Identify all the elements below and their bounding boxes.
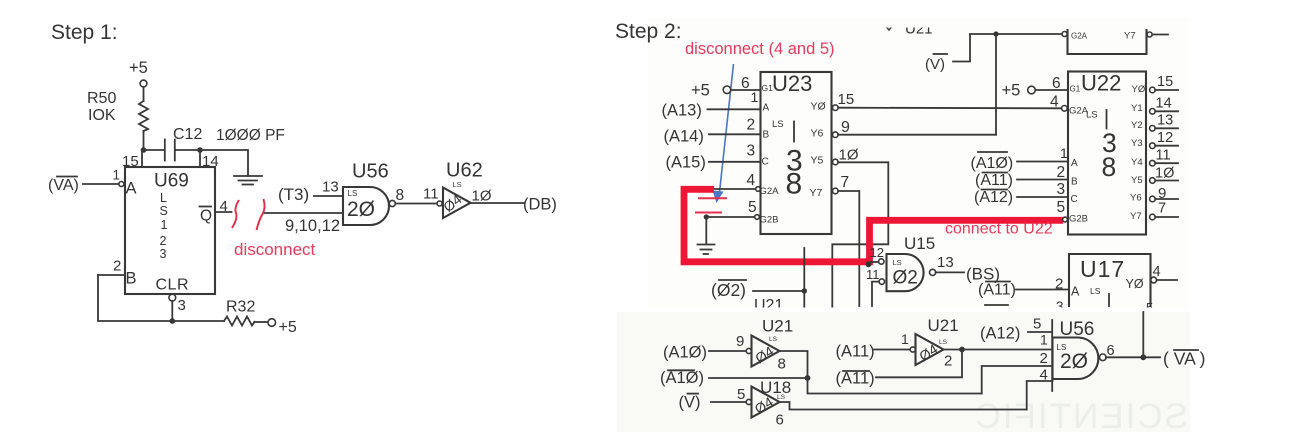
svg-text:(A11): (A11) xyxy=(978,282,1016,299)
red cut mark at pin 4 xyxy=(698,197,727,199)
svg-text:LS: LS xyxy=(772,119,784,130)
red cut mark at pin 5 xyxy=(695,212,722,214)
inverter U21a input bubble xyxy=(746,348,751,353)
U23 big 138 label xyxy=(793,122,795,142)
NOR gate U15 xyxy=(887,254,924,291)
pin 15 stub xyxy=(141,150,143,167)
wire node up to strip edge xyxy=(1142,312,1144,357)
svg-text:14: 14 xyxy=(1156,96,1172,112)
svg-text:2: 2 xyxy=(1055,276,1063,293)
ground xyxy=(234,175,262,177)
wire (A15) to pin 3 xyxy=(709,161,760,163)
svg-text:C12: C12 xyxy=(173,126,202,143)
svg-text:(A1Ø): (A1Ø) xyxy=(971,155,1014,172)
svg-text:Ø2: Ø2 xyxy=(893,268,918,289)
svg-text:Y3: Y3 xyxy=(1131,138,1143,149)
svg-text:3: 3 xyxy=(178,297,186,314)
svg-text:Y5: Y5 xyxy=(811,155,824,167)
wire (A11) to U22 pin 2 xyxy=(1017,179,1068,181)
svg-text:G1: G1 xyxy=(762,83,774,93)
svg-text:1: 1 xyxy=(751,89,759,105)
svg-text:7: 7 xyxy=(1158,201,1166,217)
wire Y7 routed down xyxy=(838,191,859,306)
NAND gate U56 xyxy=(343,187,389,225)
node junction on output xyxy=(1140,354,1146,360)
svg-text:5: 5 xyxy=(1057,199,1066,216)
svg-text:8: 8 xyxy=(778,356,786,373)
inverter U18 input bubble xyxy=(746,399,751,404)
wire pin4 stub (cut) xyxy=(215,211,232,213)
svg-text:15: 15 xyxy=(838,91,855,108)
svg-text:U62: U62 xyxy=(446,160,483,182)
svg-text:(A1Ø): (A1Ø) xyxy=(660,369,704,387)
svg-text:U56: U56 xyxy=(1060,319,1095,340)
svg-text:A: A xyxy=(1071,158,1078,169)
svg-text:13: 13 xyxy=(322,179,339,196)
svg-text:5: 5 xyxy=(748,199,757,216)
wire pin3 down xyxy=(171,301,173,318)
blue pointer arrow xyxy=(720,64,734,192)
svg-text:+5: +5 xyxy=(691,82,710,100)
svg-text:Y4: Y4 xyxy=(1131,157,1143,168)
inverter U18 xyxy=(752,387,780,418)
wire U15 out to (BS) xyxy=(936,271,964,273)
+5 terminal at R32 xyxy=(268,319,276,327)
cut-off chip fragment (top right) xyxy=(1068,29,1147,54)
svg-text:3: 3 xyxy=(1057,181,1066,198)
wire U21b out to U56 pin 1 xyxy=(944,349,1053,351)
node junction below pin 3 xyxy=(170,318,176,324)
svg-text:B: B xyxy=(763,130,770,141)
U22 pin 5 G2B bubble (red wire destination) xyxy=(1063,217,1068,222)
svg-text:CLR: CLR xyxy=(156,277,190,294)
svg-text:12: 12 xyxy=(870,245,884,260)
svg-text:(V): (V) xyxy=(679,394,701,412)
thick red jumper wire (connect to U22) xyxy=(684,189,1063,261)
svg-text:(A12): (A12) xyxy=(974,189,1013,206)
wire (A10 bar) to node xyxy=(709,377,808,379)
svg-text:13: 13 xyxy=(937,254,954,271)
svg-text:LS: LS xyxy=(1086,110,1098,121)
wire node to R32 xyxy=(172,320,224,322)
wire +5 to R50 xyxy=(143,87,145,101)
svg-text:U56: U56 xyxy=(352,161,389,183)
svg-text:G2B: G2B xyxy=(760,215,779,226)
wire stub to U15 pin 12 xyxy=(869,261,879,263)
svg-text:G2A: G2A xyxy=(760,186,780,197)
svg-text:3: 3 xyxy=(747,143,756,160)
pin 3 bubble on CLR xyxy=(169,294,176,301)
wire (02) to riser xyxy=(753,290,804,292)
svg-text:Y7: Y7 xyxy=(810,187,823,199)
wire (T3) to pin 13 xyxy=(314,195,343,197)
wire (A11 bar) to node xyxy=(876,350,962,378)
cut overline fragment at strip edge xyxy=(985,304,1008,306)
wire U15 pin 11 riser xyxy=(872,282,879,306)
wire (A11) to U17 pin 2 xyxy=(1016,289,1069,291)
svg-text:Step 1:: Step 1: xyxy=(51,21,118,44)
wire (A13) to pin 1 xyxy=(708,108,761,110)
U22 pin 4 G2A bubble xyxy=(1062,106,1068,112)
wire U56 out to (VA bar) xyxy=(1106,356,1160,358)
svg-text:12: 12 xyxy=(1157,130,1173,146)
svg-text:YØ: YØ xyxy=(811,101,826,113)
decoder U17 box (cut) xyxy=(1069,254,1151,307)
svg-text:(A14): (A14) xyxy=(664,128,704,146)
svg-text:G2B: G2B xyxy=(1069,214,1088,225)
svg-text:Y5: Y5 xyxy=(1131,175,1143,186)
svg-text:LS: LS xyxy=(939,339,948,346)
svg-text:YØ: YØ xyxy=(1126,277,1144,291)
svg-text:+5: +5 xyxy=(129,59,148,77)
svg-text:2: 2 xyxy=(944,353,952,370)
wire top rail down to U23 pin9 wire xyxy=(995,34,997,135)
inverter U21b input bubble xyxy=(910,347,915,352)
wire Y5 routed down xyxy=(832,162,888,307)
wire (VA) to pin 1 xyxy=(83,183,119,185)
svg-text:2: 2 xyxy=(160,234,167,248)
svg-text:6: 6 xyxy=(741,75,750,92)
one-shot U69 box xyxy=(125,167,215,294)
svg-text:S: S xyxy=(160,204,168,218)
wire (A14) to pin 2 xyxy=(709,133,760,135)
svg-text:LS: LS xyxy=(777,394,786,401)
svg-text:LS: LS xyxy=(348,189,358,198)
wire node down and right to U56 pin 2 riser xyxy=(808,378,982,394)
decoder U23 box xyxy=(761,72,832,234)
svg-text:(VA): (VA) xyxy=(48,177,79,194)
wire node to ground xyxy=(200,150,248,175)
wire (V) up to top rail xyxy=(953,34,1062,62)
svg-text:IOK: IOK xyxy=(88,107,116,124)
upper scan strip background xyxy=(648,18,1190,308)
svg-text:connect to U22: connect to U22 xyxy=(945,221,1053,238)
svg-text:2Ø: 2Ø xyxy=(347,198,375,221)
svg-text:Y1: Y1 xyxy=(1131,103,1143,114)
svg-text:(Ø2): (Ø2) xyxy=(711,280,746,300)
svg-text:13: 13 xyxy=(1157,113,1173,129)
wire U17 Y0 out xyxy=(1157,279,1178,281)
wire Y0 to U22 pin 4 xyxy=(838,107,1061,110)
svg-text:U23: U23 xyxy=(772,71,812,96)
svg-text:1: 1 xyxy=(161,218,168,232)
svg-text:LS: LS xyxy=(893,258,902,267)
svg-text:disconnect (4 and 5): disconnect (4 and 5) xyxy=(685,40,835,58)
svg-text:(A15): (A15) xyxy=(666,154,706,172)
svg-text:(A11): (A11) xyxy=(836,343,875,361)
svg-text:9: 9 xyxy=(841,119,850,136)
wire junction to ground xyxy=(705,217,707,244)
svg-text:9: 9 xyxy=(736,333,744,350)
node junction left of C12 xyxy=(141,147,147,153)
svg-text:9: 9 xyxy=(1158,185,1166,202)
inverter U62 xyxy=(443,188,471,219)
svg-text:(A1Ø): (A1Ø) xyxy=(663,344,707,362)
inverter U21a xyxy=(752,336,780,367)
pin 4 G2A stub (disconnected) xyxy=(713,188,756,190)
node junction at red corner / U15 pin12 xyxy=(866,261,872,267)
svg-text:(T3): (T3) xyxy=(278,185,309,204)
wire (A12) to U22 pin 3 xyxy=(1017,196,1068,198)
svg-text:(A11): (A11) xyxy=(836,370,875,388)
svg-text:U21: U21 xyxy=(762,317,793,336)
svg-text:8: 8 xyxy=(396,187,405,204)
svg-text:B: B xyxy=(1071,177,1078,188)
resistor R32 xyxy=(224,317,255,326)
svg-text:2: 2 xyxy=(113,258,121,275)
wire (A11) to U21b input xyxy=(874,349,910,351)
wire (A10) to U21 input xyxy=(709,350,746,352)
ground below U23 xyxy=(698,244,715,246)
svg-text:U17: U17 xyxy=(1080,256,1125,282)
svg-text:Y6: Y6 xyxy=(811,128,824,140)
svg-text:1Ø: 1Ø xyxy=(472,188,492,205)
svg-text:4: 4 xyxy=(1153,264,1161,280)
wire (A12) to U56 pin 5 xyxy=(1028,331,1052,333)
svg-text:( VA ): ( VA ) xyxy=(1163,349,1205,369)
red break mark 2 xyxy=(257,199,265,230)
svg-text:LS: LS xyxy=(1090,286,1101,296)
svg-text:4: 4 xyxy=(747,172,756,189)
svg-text:L: L xyxy=(160,191,167,205)
svg-text:R32: R32 xyxy=(226,299,255,316)
svg-text:1ØØØ PF: 1ØØØ PF xyxy=(216,127,285,144)
svg-text:1: 1 xyxy=(1060,145,1068,161)
wire B loop to pin3 node xyxy=(98,275,169,321)
node junction on pin5 stub xyxy=(704,214,709,219)
svg-text:15: 15 xyxy=(1157,74,1173,90)
svg-text:5: 5 xyxy=(737,386,745,403)
svg-text:7: 7 xyxy=(841,174,850,191)
inverter U62 input bubble xyxy=(437,201,442,206)
svg-text:SCIENTIFIC: SCIENTIFIC xyxy=(974,397,1188,436)
NAND gate U56 body xyxy=(1053,338,1099,380)
svg-text:(A13): (A13) xyxy=(662,102,702,120)
wire node to C12 xyxy=(144,149,164,151)
wire +5 to U22 pin 6 xyxy=(1035,89,1068,91)
wire R32 to +5 terminal xyxy=(255,321,269,323)
svg-text:1Ø: 1Ø xyxy=(839,147,859,164)
svg-text:LS: LS xyxy=(453,180,462,189)
wire cut-right to U56 input xyxy=(265,212,344,214)
svg-text:2: 2 xyxy=(1057,164,1066,181)
svg-text:11: 11 xyxy=(423,186,439,203)
svg-text:11: 11 xyxy=(866,267,880,282)
svg-text:4: 4 xyxy=(1050,94,1059,111)
svg-text:5: 5 xyxy=(1033,316,1041,333)
pin 1 bubble at A xyxy=(119,182,124,187)
svg-text:8: 8 xyxy=(1102,152,1117,182)
svg-text:Q: Q xyxy=(200,208,212,225)
node junction (A11 bar net) xyxy=(959,347,965,353)
svg-text:(A11): (A11) xyxy=(975,172,1013,189)
svg-text:11: 11 xyxy=(1156,148,1171,164)
strip gap (white band between scan strips) xyxy=(610,308,1289,313)
riser wire xyxy=(803,248,805,307)
svg-text:1: 1 xyxy=(901,331,909,347)
svg-text:6: 6 xyxy=(1052,75,1061,92)
wire Y6 to (V) rail xyxy=(838,134,996,136)
svg-text:8: 8 xyxy=(786,168,803,201)
wire (A10) to U22 pin 1 xyxy=(1017,161,1068,163)
wire U18 out to U56 pin 4 riser xyxy=(780,402,1027,410)
svg-text:A: A xyxy=(763,103,770,114)
svg-text:Y7: Y7 xyxy=(1124,31,1136,42)
svg-text:(DB): (DB) xyxy=(523,196,557,214)
wire U56 out to U62 in xyxy=(395,203,437,205)
inverter U21b xyxy=(916,334,944,365)
svg-text:Step 2:: Step 2: xyxy=(615,20,682,43)
capacitor C12 xyxy=(164,140,166,161)
wire R50 to node xyxy=(143,131,145,150)
svg-text:A: A xyxy=(1071,285,1080,299)
node junction on riser xyxy=(802,288,807,293)
node junction (A10 bar net) xyxy=(805,375,811,381)
svg-text:2Ø: 2Ø xyxy=(1060,350,1088,373)
decoder U22 box xyxy=(1068,72,1146,235)
svg-text:1: 1 xyxy=(113,168,121,183)
svg-text:B: B xyxy=(126,270,137,288)
svg-text:U15: U15 xyxy=(904,234,935,253)
wire +5 to pin 6 xyxy=(731,89,760,91)
svg-text:Y6: Y6 xyxy=(1130,193,1142,204)
svg-text:U21: U21 xyxy=(928,316,959,335)
svg-text:9,10,12: 9,10,12 xyxy=(285,217,340,235)
svg-text:+5: +5 xyxy=(279,319,297,336)
pin 14 stub xyxy=(199,150,201,167)
cut-off gate label fragment U21 (top) xyxy=(884,21,933,38)
svg-text:(A12): (A12) xyxy=(980,325,1020,343)
svg-text:Y7: Y7 xyxy=(1130,211,1142,222)
U22 big 138 label xyxy=(1106,110,1108,129)
svg-text:A: A xyxy=(126,180,137,198)
node junction right of C12 xyxy=(197,147,203,153)
svg-text:LS: LS xyxy=(769,336,778,343)
wire U62 out to (DB) xyxy=(471,202,525,204)
svg-text:R50: R50 xyxy=(87,90,116,107)
svg-text:1Ø: 1Ø xyxy=(1155,166,1174,182)
svg-text:3: 3 xyxy=(160,247,167,261)
svg-text:disconnect: disconnect xyxy=(234,240,316,259)
red break mark 1 xyxy=(232,200,239,228)
resistor R50 xyxy=(139,101,148,131)
pin 5 G2B stub xyxy=(706,216,755,218)
svg-text:+5: +5 xyxy=(1002,82,1021,100)
wire C12 to node 14 xyxy=(176,149,200,151)
svg-text:2: 2 xyxy=(747,117,756,134)
svg-text:U22: U22 xyxy=(1081,71,1121,96)
svg-text:C: C xyxy=(762,157,769,168)
svg-text:U69: U69 xyxy=(154,171,189,192)
svg-text:G1: G1 xyxy=(1070,85,1081,94)
svg-text:YØ: YØ xyxy=(1132,84,1146,95)
svg-text:2: 2 xyxy=(1040,350,1048,367)
svg-text:6: 6 xyxy=(776,412,784,429)
wire U21a out down to (A10bar) node xyxy=(780,351,808,378)
svg-text:C: C xyxy=(1071,194,1078,205)
wire (V) to U18 input xyxy=(711,401,746,403)
svg-text:1: 1 xyxy=(1040,332,1048,348)
svg-text:Y2: Y2 xyxy=(1131,120,1143,131)
svg-text:G2A: G2A xyxy=(1071,32,1088,41)
lower scan strip background xyxy=(617,312,1190,432)
NAND gate U56 input rail xyxy=(1051,320,1053,391)
node junction on top rail xyxy=(993,31,998,36)
svg-text:(V): (V) xyxy=(925,56,945,73)
